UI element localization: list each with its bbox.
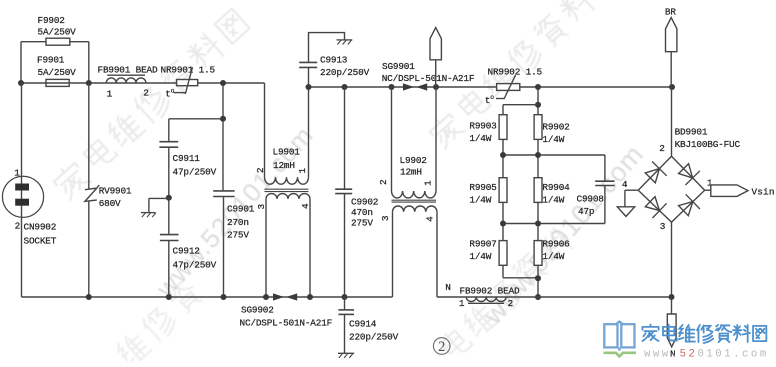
diode D3 (4-3) (645, 197, 659, 211)
wire N line (437, 296, 672, 298)
svg-text:o: o (171, 87, 175, 94)
wire (21, 83, 23, 177)
svg-text:Vsin: Vsin (752, 186, 775, 197)
svg-text:3: 3 (660, 221, 666, 232)
capacitor C9911 (168, 119, 170, 142)
logo text 家电维修资料网 (642, 324, 658, 341)
wire (169, 118, 223, 120)
connector (pin4, open triangle) (617, 207, 634, 217)
thermistor NR9902 (497, 84, 520, 91)
wire (502, 139, 504, 177)
svg-text:1/4W: 1/4W (469, 251, 491, 262)
capacitor C9913 (308, 67, 310, 87)
bridge rectifier BD9901 (671, 87, 673, 156)
svg-text:SOCKET: SOCKET (24, 236, 57, 247)
node (166, 195, 172, 201)
ferrite bead FB9901 (107, 74, 145, 76)
svg-text:1: 1 (707, 178, 713, 189)
spark gap SG9902 (273, 293, 284, 300)
svg-text:N: N (445, 282, 450, 293)
svg-text:275V: 275V (351, 217, 373, 228)
svg-text:2: 2 (143, 88, 148, 99)
fuse F9901 (46, 79, 69, 86)
capacitor C9908 (595, 180, 614, 182)
svg-text:C9902: C9902 (351, 197, 378, 208)
svg-text:1: 1 (107, 89, 113, 100)
thermistor NR9901 (177, 80, 198, 86)
svg-text:275V: 275V (227, 230, 249, 241)
svg-text:2: 2 (659, 143, 664, 154)
wire (503, 104, 538, 106)
capacitor C9914 (344, 297, 346, 310)
svg-text:1/4W: 1/4W (542, 251, 564, 262)
diode D2 (2-1) (679, 164, 693, 178)
svg-text:R9906: R9906 (542, 239, 570, 250)
svg-text:SG9901: SG9901 (382, 61, 415, 72)
diode D4 (3-1) (679, 202, 693, 216)
common-mode choke L9901 (264, 83, 266, 177)
svg-text:C9914: C9914 (349, 319, 377, 330)
svg-text:CN9902: CN9902 (24, 222, 57, 233)
wire (88, 42, 90, 83)
svg-text:R9905: R9905 (469, 182, 497, 193)
node (342, 294, 348, 300)
svg-text:2: 2 (508, 298, 513, 309)
svg-text:47p/250V: 47p/250V (173, 167, 217, 178)
svg-text:R9904: R9904 (542, 182, 570, 193)
svg-text:F9902: F9902 (38, 15, 65, 26)
node (535, 275, 541, 281)
node (433, 84, 439, 90)
wire (502, 265, 504, 278)
wire left rail (21, 82, 265, 84)
node (18, 80, 24, 86)
node (535, 102, 541, 108)
svg-text:220p/250V: 220p/250V (349, 332, 399, 343)
svg-text:1/4W: 1/4W (542, 195, 564, 206)
svg-text:R9903: R9903 (469, 121, 497, 132)
figure number 2 (433, 338, 450, 355)
svg-text:1: 1 (459, 298, 465, 309)
ground (149, 197, 169, 199)
node (535, 84, 541, 90)
svg-text:5A/250V: 5A/250V (38, 67, 77, 78)
svg-text:FB9902 BEAD: FB9902 BEAD (460, 286, 520, 297)
svg-text:270n: 270n (227, 217, 249, 228)
svg-text:RV9901: RV9901 (99, 186, 132, 197)
svg-text:5A/250V: 5A/250V (38, 27, 77, 38)
spark gap SG9901 (403, 83, 414, 90)
svg-text:C9912: C9912 (173, 246, 200, 257)
node (221, 294, 227, 300)
svg-text:2: 2 (378, 179, 389, 185)
node (669, 294, 675, 300)
connector N (down) (671, 297, 673, 314)
svg-text:3: 3 (256, 204, 267, 210)
diode D1 (4-2) (645, 169, 659, 183)
svg-text:NC/DSPL-501N-A21F: NC/DSPL-501N-A21F (382, 73, 475, 84)
connector Vsin (711, 185, 748, 197)
wire row (503, 223, 605, 225)
connector (to deflection) (430, 28, 441, 60)
svg-text:FB9901 BEAD: FB9901 BEAD (98, 65, 158, 76)
svg-text:BD9901: BD9901 (675, 127, 708, 138)
svg-text:2: 2 (255, 167, 266, 173)
node (389, 84, 395, 90)
svg-text:L9902: L9902 (400, 155, 427, 166)
resistor R9907 (499, 241, 507, 266)
svg-text:4: 4 (622, 179, 628, 190)
svg-text:4: 4 (424, 216, 435, 222)
svg-text:1/4W: 1/4W (469, 195, 491, 206)
resistor R9903 (499, 115, 507, 140)
node (535, 152, 541, 158)
node (86, 294, 92, 300)
svg-text:4: 4 (300, 203, 311, 209)
svg-text:www.520101.com: www.520101.com (644, 349, 769, 361)
wire (21, 41, 89, 43)
node (307, 294, 313, 300)
svg-text:KBJ100BG-FUC: KBJ100BG-FUC (675, 139, 741, 150)
svg-text:47p: 47p (578, 206, 594, 217)
svg-text:1: 1 (423, 180, 434, 186)
svg-text:R9907: R9907 (469, 239, 496, 250)
wire pin1 (705, 189, 711, 191)
svg-text:BR: BR (665, 7, 676, 18)
socket CN9902 (2, 176, 43, 217)
svg-text:220p/250V: 220p/250V (320, 67, 370, 78)
node (220, 116, 226, 122)
svg-text:680V: 680V (99, 198, 121, 209)
node (220, 80, 226, 86)
resistor R9904 (534, 178, 542, 203)
resistor R9906 (534, 241, 542, 266)
ferrite bead FB9902 (466, 297, 506, 302)
wire (502, 202, 504, 240)
node (500, 221, 506, 227)
node (500, 152, 506, 158)
svg-text:SG9902: SG9902 (241, 305, 274, 316)
resistor R9905 (499, 178, 507, 203)
wire pin4 (625, 189, 638, 191)
svg-text:3: 3 (380, 215, 391, 221)
svg-text:47p/250V: 47p/250V (173, 260, 217, 271)
node (86, 80, 92, 86)
varistor RV9901 (88, 83, 90, 189)
svg-text:NR9901 1.5: NR9901 1.5 (161, 65, 216, 76)
svg-text:C9908: C9908 (577, 194, 605, 205)
svg-text:C9913: C9913 (320, 55, 348, 66)
wire pin3 (671, 222, 673, 297)
svg-text:o: o (490, 94, 494, 101)
capacitor C9901 (222, 83, 224, 191)
svg-text:NR9902 1.5: NR9902 1.5 (488, 67, 543, 78)
capacitor C9902 (344, 87, 346, 189)
svg-text:2: 2 (438, 339, 445, 355)
resistor R9902 (534, 115, 542, 140)
svg-text:1/4W: 1/4W (469, 133, 491, 144)
wire row (503, 154, 605, 156)
node (535, 221, 541, 227)
svg-text:1: 1 (14, 168, 20, 179)
ground (338, 352, 354, 354)
svg-text:NC/DSPL-501N-A21F: NC/DSPL-501N-A21F (240, 318, 333, 329)
svg-text:C9911: C9911 (173, 153, 201, 164)
svg-text:2: 2 (15, 220, 20, 231)
svg-text:1: 1 (297, 168, 308, 174)
wire (20, 42, 22, 83)
svg-text:C9901: C9901 (227, 204, 255, 215)
wire (537, 87, 539, 115)
wire bottom rail (22, 296, 393, 298)
node (263, 294, 269, 300)
node (306, 84, 312, 90)
common-mode choke L9902 (391, 87, 393, 191)
svg-text:R9902: R9902 (542, 122, 569, 133)
ground (337, 39, 353, 41)
svg-text:F9901: F9901 (37, 55, 65, 66)
node (166, 294, 172, 300)
svg-text:1/4W: 1/4W (542, 134, 564, 145)
fuse F9902 (46, 38, 70, 45)
logo book icon (604, 322, 634, 351)
capacitor C9912 (160, 234, 179, 236)
wire right rail (309, 86, 673, 88)
node (535, 294, 541, 300)
node (669, 84, 675, 90)
svg-text:L9901: L9901 (273, 147, 301, 158)
svg-text:12mH: 12mH (273, 160, 295, 171)
node (342, 84, 348, 90)
svg-text:12mH: 12mH (400, 167, 422, 178)
